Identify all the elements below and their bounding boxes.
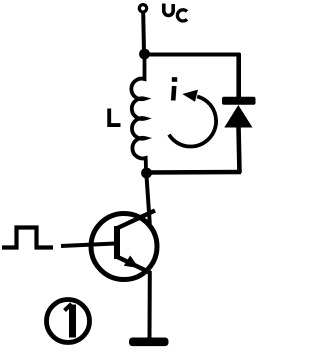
wire junction to transistor collector (147, 176, 150, 224)
transistor Q (circle) (91, 214, 157, 280)
wire terminal to top junction (141, 13, 146, 53)
label L (109, 109, 120, 126)
wire bottom horizontal (146, 170, 241, 175)
wire right side lower (239, 126, 240, 173)
label Uc (letter U) (164, 4, 173, 16)
node bottom junction dot (141, 168, 152, 179)
wire emitter to ground (148, 271, 152, 340)
current loop arrowhead (182, 90, 198, 102)
transistor Q (collector diagonal) (117, 211, 156, 229)
current loop arrow (arc) (169, 96, 216, 146)
transistor Q (emitter arrowhead) (124, 256, 139, 269)
transistor Q (emitter diagonal) (117, 257, 151, 273)
diode D (cathode bar) (222, 97, 256, 105)
wire right side upper (236, 53, 241, 98)
label i (172, 77, 177, 100)
terminal Uc (open circle) (139, 5, 146, 12)
transistor Q (base bar) (114, 226, 120, 259)
figure number circled 1 (digit) (65, 304, 73, 338)
figure number circled 1 (circle) (47, 300, 90, 343)
wire top horizontal (144, 53, 240, 57)
wire base from pulse (61, 244, 115, 247)
inductor L (coil) (131, 56, 146, 170)
label Uc (subscript c) (177, 10, 187, 21)
diode D (triangle, anode) (224, 105, 252, 128)
pulse input symbol (2, 228, 53, 248)
ground (129, 338, 169, 347)
node top junction dot (139, 49, 150, 60)
